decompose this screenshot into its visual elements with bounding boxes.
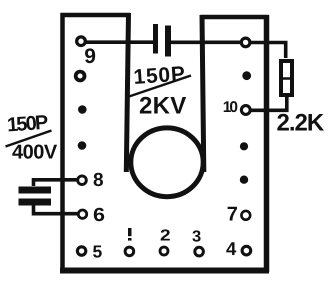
unlabeled pin below 9 (76, 72, 85, 81)
socket outline right edge (264, 15, 270, 272)
wire pin 8 to capacitor C2 (34, 180, 79, 186)
wire top-right pin to resistor R1 (250, 43, 286, 59)
svg-text:2.2K: 2.2K (277, 110, 325, 137)
pin 4 (242, 246, 251, 255)
svg-text:7: 7 (227, 203, 238, 225)
left column dot 2 (78, 141, 87, 150)
svg-text:2KV: 2KV (139, 93, 187, 120)
wire pin 9 to capacitor C1 (85, 40, 154, 44)
pin 1 (125, 247, 134, 256)
wire resistor R1 to pin 10 (251, 96, 287, 110)
pin 2 (160, 247, 168, 255)
svg-text:5: 5 (93, 242, 103, 262)
socket outline top-right edge (201, 15, 269, 20)
socket notch right vertical (202, 15, 204, 172)
capacitor C1 left plate (153, 24, 158, 54)
pin 9 (77, 37, 86, 46)
svg-text:8: 8 (93, 170, 104, 191)
fraction slash (top) (129, 76, 191, 97)
left column dot 1 (78, 105, 87, 114)
svg-text:10: 10 (223, 99, 238, 116)
socket notch left vertical (126, 13, 128, 172)
right column dot 2 (240, 142, 248, 150)
pin 8 (78, 176, 87, 185)
capacitor C1 right plate (165, 26, 171, 57)
pin 3 (195, 247, 204, 256)
svg-text:9: 9 (84, 45, 96, 68)
wire capacitor C1 to top-right pin (171, 40, 242, 44)
svg-text:3: 3 (192, 229, 201, 246)
wire capacitor C2 to pin 6 (34, 206, 79, 214)
top-right pin (241, 38, 250, 47)
label 1 (128, 228, 132, 236)
capacitor C2 bottom plate (19, 199, 52, 206)
right column dot 1 (242, 71, 251, 80)
svg-text:6: 6 (93, 205, 105, 226)
resistor R1 middle line (280, 77, 294, 80)
socket center key circle (131, 128, 203, 197)
pin 5 (77, 247, 85, 255)
svg-text:4: 4 (226, 238, 237, 259)
right column dot 3 (240, 176, 248, 184)
fraction slash (left) (6, 131, 52, 147)
capacitor C2 top plate (19, 187, 52, 194)
pin 6 (78, 210, 86, 218)
svg-text:2: 2 (160, 228, 171, 245)
socket outline bottom edge (60, 268, 269, 274)
socket outline left edge (60, 13, 65, 272)
resistor R1 body (281, 61, 292, 95)
socket outline top-left edge (61, 13, 131, 18)
svg-text:400V: 400V (12, 142, 58, 164)
pin 7 (241, 211, 250, 220)
pin 10 (241, 106, 250, 115)
